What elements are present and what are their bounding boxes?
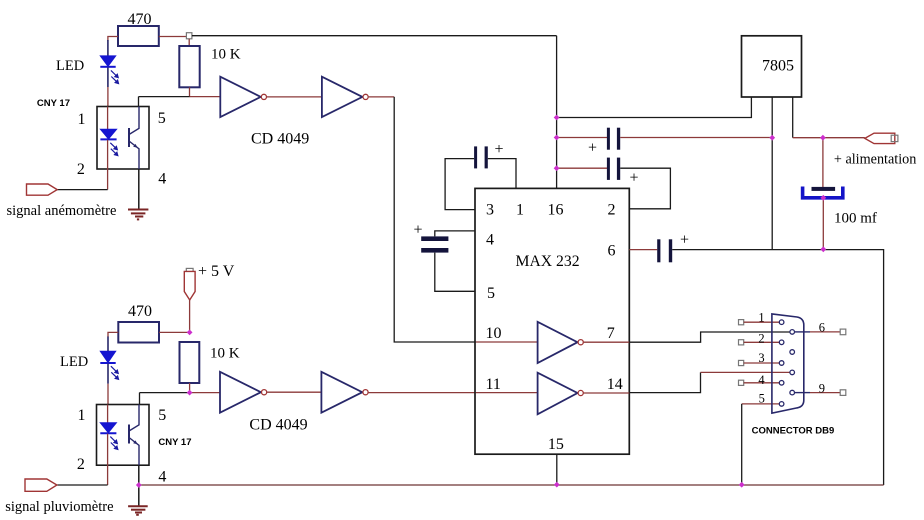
svg-text:CNY 17: CNY 17 [158,437,191,448]
svg-text:+: + [414,222,423,239]
svg-text:14: 14 [607,376,623,393]
svg-text:470: 470 [128,303,152,320]
svg-text:4: 4 [486,232,494,249]
svg-text:+ alimentation: + alimentation [834,152,916,168]
svg-text:signal anémomètre: signal anémomètre [7,203,117,219]
svg-text:4: 4 [758,373,765,387]
svg-text:5: 5 [158,407,166,424]
svg-text:10: 10 [486,325,502,342]
svg-text:9: 9 [819,381,825,395]
svg-text:signal pluviomètre: signal pluviomètre [5,499,113,515]
svg-text:+: + [630,170,639,187]
svg-text:MAX 232: MAX 232 [516,253,580,270]
svg-text:+: + [588,140,597,157]
svg-text:+ 5 V: + 5 V [198,263,235,280]
svg-text:2: 2 [758,332,764,346]
svg-text:CONNECTOR DB9: CONNECTOR DB9 [752,426,835,437]
svg-text:6: 6 [819,321,825,335]
svg-text:+: + [680,232,689,249]
svg-text:10 K: 10 K [211,47,241,63]
svg-text:1: 1 [758,311,764,325]
svg-text:11: 11 [486,376,501,393]
svg-text:6: 6 [608,243,616,260]
svg-text:15: 15 [548,436,564,453]
svg-text:10 K: 10 K [210,346,240,362]
svg-text:470: 470 [128,11,152,28]
svg-text:5: 5 [487,285,495,302]
svg-text:LED: LED [60,354,88,370]
svg-text:LED: LED [56,58,84,74]
svg-text:CD 4049: CD 4049 [251,131,309,148]
svg-text:100 mf: 100 mf [834,211,877,227]
svg-text:1: 1 [78,407,86,424]
svg-text:1: 1 [78,111,86,128]
svg-text:CNY 17: CNY 17 [37,98,70,109]
svg-text:7805: 7805 [762,58,794,75]
svg-text:1: 1 [516,202,524,219]
svg-text:7: 7 [607,325,615,342]
svg-text:2: 2 [77,161,85,178]
svg-text:4: 4 [158,469,166,486]
svg-text:4: 4 [158,171,166,188]
svg-text:5: 5 [759,392,765,406]
svg-text:5: 5 [158,110,166,127]
svg-text:2: 2 [77,456,85,473]
svg-text:2: 2 [608,202,616,219]
svg-text:+: + [495,141,504,158]
svg-text:3: 3 [486,202,494,219]
svg-text:CD 4049: CD 4049 [249,417,307,434]
svg-text:16: 16 [548,202,564,219]
svg-text:3: 3 [758,351,764,365]
